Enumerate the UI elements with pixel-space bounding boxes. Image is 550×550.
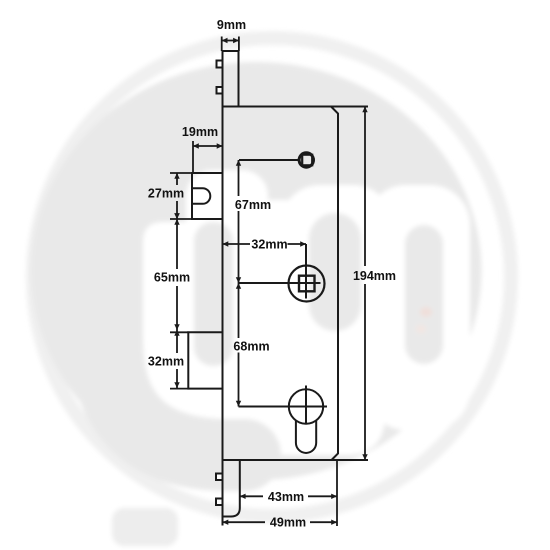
latch box [192, 173, 223, 219]
deadbolt box [188, 332, 222, 388]
dimension 194mm [364, 107, 366, 461]
euro crosshair horizontal / 68mm leader [239, 406, 328, 408]
watermark logo gray counter 2 [405, 225, 443, 364]
watermark wordmark blob [112, 508, 178, 546]
bottom tab screw square 1 [216, 474, 223, 481]
roller cam circle [299, 153, 313, 167]
watermark logo white patch [245, 200, 317, 260]
watermark logo gray counter 1 [309, 213, 361, 331]
latch bolt [192, 188, 210, 204]
euro crosshair vertical [305, 386, 307, 425]
svg-text:43mm: 43mm [268, 490, 304, 504]
case top-right chamfer [331, 107, 338, 461]
case top edge [223, 106, 369, 108]
svg-text:65mm: 65mm [154, 271, 190, 285]
svg-text:32mm: 32mm [251, 238, 287, 252]
watermark logo white loop panel 2 [366, 185, 470, 430]
dimension 19mm [193, 141, 223, 173]
watermark logo white panel left [143, 222, 385, 455]
bottom tab screw square 2 [216, 499, 223, 506]
watermark warm spot [420, 307, 432, 317]
case bottom edge [223, 459, 369, 461]
dimension 32mm left [170, 330, 188, 389]
roller cam square [302, 155, 312, 166]
svg-text:19mm: 19mm [182, 125, 218, 139]
dimension 65mm [170, 219, 188, 332]
bottom tab outline [223, 460, 240, 517]
watermark logo white loop panel 1 [280, 185, 393, 358]
svg-text:9mm: 9mm [217, 18, 246, 32]
svg-text:68mm: 68mm [233, 340, 269, 354]
watermark logo gray u-channel [107, 230, 245, 455]
dimension 27mm [170, 173, 192, 219]
svg-text:27mm: 27mm [148, 187, 184, 201]
dimension 32mm backset [223, 243, 307, 245]
dimension 49mm [223, 521, 338, 523]
watermark logo white blob0 [186, 170, 268, 270]
svg-text:67mm: 67mm [235, 198, 271, 212]
spindle crosshair horizontal [239, 282, 321, 284]
roller cam leader [239, 159, 299, 161]
svg-text:194mm: 194mm [353, 269, 396, 283]
svg-text:32mm: 32mm [148, 355, 184, 369]
dimension 67mm [238, 160, 240, 283]
top tab screw square 2 [217, 87, 223, 94]
faceplate left edge wire [222, 51, 224, 526]
watermark logo gray counter 0 [194, 222, 233, 366]
euro cylinder circle [289, 389, 323, 423]
spindle square [299, 276, 315, 292]
dimension 9mm [222, 37, 239, 52]
dimension 43mm [240, 460, 337, 526]
spindle crosshair vertical [305, 244, 307, 299]
euro cylinder stem [296, 420, 316, 453]
dimension 68mm [238, 283, 240, 407]
top tab outline [223, 51, 239, 107]
spindle circle [289, 266, 325, 302]
top tab screw square 1 [217, 61, 223, 68]
svg-text:49mm: 49mm [270, 516, 306, 530]
